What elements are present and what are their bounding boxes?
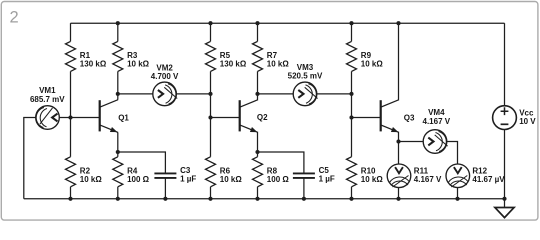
wire R11 bottom stub	[398, 187, 400, 198]
wire left branch (VM1 to ground rail)	[24, 118, 36, 199]
wire R9 bottom to mid node	[351, 71, 353, 94]
svg-text:10 V: 10 V	[519, 117, 536, 126]
resistor R6	[206, 157, 216, 187]
node ground junction	[502, 197, 506, 201]
svg-text:10 kΩ: 10 kΩ	[127, 60, 150, 69]
wire emitter node to VM4	[399, 141, 424, 143]
svg-text:100 Ω: 100 Ω	[267, 175, 290, 184]
wire emitter node to R11	[398, 142, 400, 165]
svg-text:10 kΩ: 10 kΩ	[267, 60, 290, 69]
wire VM1 right lead	[59, 117, 70, 119]
wire Q2 emitter stub	[257, 132, 259, 152]
node R5 top rail	[208, 21, 212, 25]
wire R6 bottom stub	[210, 187, 212, 199]
svg-text:10 kΩ: 10 kΩ	[361, 175, 384, 184]
svg-text:VM1: VM1	[39, 86, 56, 95]
svg-text:4.700 V: 4.700 V	[151, 72, 179, 81]
wire R4 bottom stub	[117, 187, 119, 199]
node Q3 collector top rail	[396, 21, 400, 25]
ground	[495, 208, 514, 218]
node base Q3	[349, 115, 353, 119]
svg-text:Q2: Q2	[257, 113, 268, 122]
resistor R4	[113, 157, 123, 187]
wire top rail to Vcc	[504, 23, 506, 106]
node C5 ground	[302, 197, 306, 201]
wire Q1 emitter stub	[117, 132, 119, 152]
resistor R7	[253, 41, 263, 71]
transistor Q2	[239, 100, 241, 131]
svg-text:10 kΩ: 10 kΩ	[220, 175, 243, 184]
svg-text:1 µF: 1 µF	[319, 175, 335, 184]
wire Q1 collector stub	[117, 94, 119, 100]
svg-text:10 kΩ: 10 kΩ	[361, 60, 384, 69]
voltmeter VM3	[293, 82, 317, 106]
node emitter Q3	[396, 139, 400, 143]
node R6 ground	[208, 197, 212, 201]
wire collector Q2 to VM3	[258, 93, 294, 95]
wire R12 bottom stub	[457, 187, 459, 198]
wire R9 top stub	[351, 23, 353, 41]
wire base node to R2	[70, 118, 72, 157]
node base Q1	[68, 115, 72, 119]
node emitter Q2	[255, 150, 259, 154]
svg-text:685.7 mV: 685.7 mV	[30, 95, 65, 104]
node base Q2	[208, 115, 212, 119]
svg-text:100 Ω: 100 Ω	[127, 175, 150, 184]
wire R7 top stub	[257, 23, 259, 41]
wire VM3 to stage3 node	[317, 93, 352, 95]
wire C5 bottom stub	[303, 178, 305, 199]
svg-text:41.67 µV: 41.67 µV	[472, 175, 505, 184]
node R12 ground	[455, 197, 459, 201]
wire Q2 collector stub	[257, 94, 259, 100]
svg-text:130 kΩ: 130 kΩ	[220, 60, 247, 69]
wire R2 bottom stub	[70, 187, 72, 199]
wire VM4 to R12	[447, 142, 458, 165]
node VM2 right junction	[208, 92, 212, 96]
wire R5 bottom to mid node	[210, 71, 212, 94]
wire bottom rail	[24, 198, 505, 200]
wire VM2 to stage2 node	[177, 93, 211, 95]
svg-text:4.167 V: 4.167 V	[414, 175, 442, 184]
node R7 top rail	[255, 21, 259, 25]
svg-text:Vcc: Vcc	[519, 108, 534, 117]
capacitor C5	[293, 172, 315, 174]
wire ground stub	[504, 199, 506, 208]
wire collector Q1 to VM2	[118, 93, 153, 95]
svg-text:2: 2	[10, 9, 19, 27]
svg-text:130 kΩ: 130 kΩ	[80, 60, 107, 69]
wire C3 bottom stub	[164, 178, 166, 199]
wire emitter node to C3	[118, 152, 166, 173]
node R4 ground	[116, 197, 120, 201]
wire base node to R6	[210, 118, 212, 157]
wire Q3 collector to top rail	[398, 23, 400, 100]
node R2 ground	[68, 197, 72, 201]
wire R1 top stub	[70, 23, 72, 41]
resistor R9	[347, 41, 357, 71]
node emitter Q1	[116, 150, 120, 154]
wire base node to R10	[351, 118, 353, 157]
node collector Q1	[116, 92, 120, 96]
svg-text:Q3: Q3	[404, 113, 415, 122]
node VM3 right junction	[349, 92, 353, 96]
svg-text:520.5 mV: 520.5 mV	[288, 72, 323, 81]
resistor R5	[206, 41, 216, 71]
wire emitter node to C5	[258, 152, 304, 173]
wire mid node to base node Q3	[351, 94, 353, 118]
wire R3 top stub	[117, 23, 119, 41]
wire Q3 emitter stub	[398, 132, 400, 141]
wire R8 top stub	[257, 152, 259, 157]
node collector Q2	[255, 92, 259, 96]
svg-text:1 µF: 1 µF	[180, 175, 196, 184]
node C3 ground	[163, 197, 167, 201]
node R8 ground	[255, 197, 259, 201]
voltmeter VM2	[153, 82, 177, 106]
capacitor C3	[154, 172, 176, 174]
node R11 ground	[396, 197, 400, 201]
node R10 ground	[349, 197, 353, 201]
resistor R10	[347, 157, 357, 187]
transistor Q3	[380, 100, 382, 131]
source Vcc	[493, 106, 517, 130]
voltmeter VM4	[423, 130, 447, 154]
voltmeter VM1	[36, 106, 60, 130]
resistor R3	[113, 41, 123, 71]
wire R1 bottom to base node	[70, 71, 72, 117]
wire R4 top stub	[117, 152, 119, 157]
svg-text:VM2: VM2	[156, 63, 173, 72]
resistor R1	[66, 41, 76, 71]
resistor R2	[66, 157, 76, 187]
voltmeter R11	[387, 164, 411, 188]
node R3 top rail	[116, 21, 120, 25]
svg-text:VM4: VM4	[428, 108, 445, 117]
wire mid node to base node Q2	[210, 94, 212, 118]
wire Vcc bottom to ground rail	[504, 130, 506, 199]
wire R3 bottom to collector node	[117, 71, 119, 94]
node R9 top rail	[349, 21, 353, 25]
wire R7 bottom to collector node	[257, 71, 259, 94]
svg-text:Q1: Q1	[118, 113, 129, 122]
wire R10 bottom stub	[351, 187, 353, 199]
resistor R8	[253, 157, 263, 187]
wire top rail	[71, 22, 505, 24]
wire R8 bottom stub	[257, 187, 259, 199]
wire R5 top stub	[210, 23, 212, 41]
transistor Q1	[99, 100, 101, 131]
voltmeter R12	[446, 164, 470, 188]
svg-text:4.167 V: 4.167 V	[423, 117, 451, 126]
svg-text:10 kΩ: 10 kΩ	[80, 175, 103, 184]
